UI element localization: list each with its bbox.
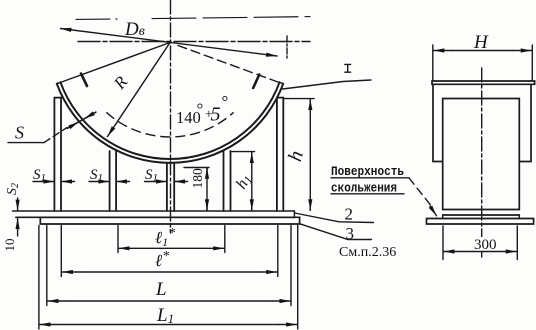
- svg-text:180: 180: [190, 168, 205, 189]
- svg-text:S1: S1: [145, 167, 158, 184]
- svg-text:h: h: [284, 148, 308, 163]
- svg-text:См.п.2.36: См.п.2.36: [339, 245, 396, 260]
- svg-text:S: S: [15, 123, 24, 143]
- svg-text:5: 5: [211, 104, 221, 126]
- svg-text:2: 2: [345, 205, 354, 224]
- svg-text:°: °: [197, 100, 204, 119]
- svg-text:ℓ*: ℓ*: [155, 249, 169, 270]
- svg-text:H: H: [473, 32, 489, 53]
- svg-text:3: 3: [346, 224, 355, 243]
- svg-text:S1: S1: [33, 167, 46, 184]
- svg-text:S2: S2: [5, 183, 21, 195]
- svg-text:°: °: [222, 92, 229, 111]
- svg-text:Поверхность: Поверхность: [331, 164, 404, 179]
- svg-text:R: R: [109, 72, 131, 93]
- svg-text:L: L: [155, 279, 167, 300]
- svg-text:ℓ1*: ℓ1*: [155, 226, 175, 249]
- svg-text:L1: L1: [156, 305, 174, 326]
- svg-text:Dв: Dв: [124, 19, 145, 40]
- svg-text:300: 300: [474, 237, 497, 253]
- svg-text:S1: S1: [90, 167, 103, 184]
- svg-text:10: 10: [2, 239, 17, 252]
